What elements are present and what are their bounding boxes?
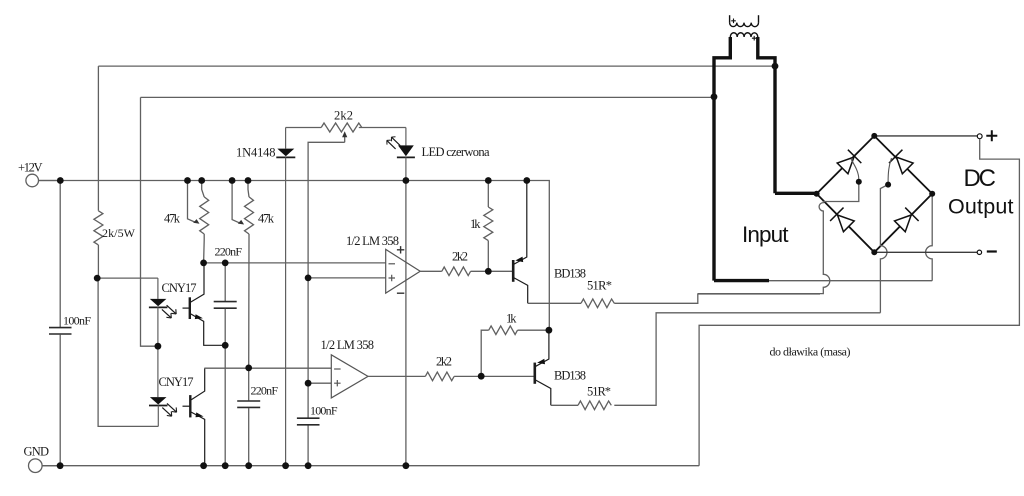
svg-text:1N4148: 1N4148: [236, 146, 276, 160]
junction 47k right body at rail: [245, 177, 252, 184]
op-amp U1A supply plus mark: [397, 246, 404, 253]
svg-text:LED czerwona: LED czerwona: [422, 145, 490, 159]
wire top feed y66 (2k/5W top to input right): [98, 65, 774, 67]
wire opamp2 noninverting input row y383: [308, 382, 331, 384]
capacitor C 220nF upper: [214, 263, 237, 466]
junction 1k channel2 right: [546, 327, 553, 334]
junction opamp2 noninverting node: [305, 380, 312, 387]
svg-text:1/2 LM 358: 1/2 LM 358: [346, 234, 399, 248]
svg-text:47k: 47k: [258, 212, 275, 226]
svg-text:2k2: 2k2: [436, 355, 452, 369]
terminal +12V: [26, 174, 60, 187]
junction GND 100nF lower: [305, 462, 312, 469]
wire opamp1 inverting input row y263: [204, 262, 386, 264]
plus sign: [986, 130, 997, 141]
svg-text:DC: DC: [964, 165, 997, 192]
svg-text:220nF: 220nF: [251, 384, 279, 398]
resistor R 47k left body: [200, 181, 209, 263]
svg-text:GND: GND: [24, 445, 50, 459]
junction opamp2 inverting node: [245, 365, 252, 372]
wire inner-left tap to 51R1 (line B): [698, 182, 859, 294]
wire +12V rail: [39, 181, 550, 331]
svg-text:51R*: 51R*: [587, 385, 611, 399]
junction Q1 emitter at rail: [523, 177, 530, 184]
bridge inner tap left curve: [851, 159, 859, 180]
svg-text:51R*: 51R*: [587, 279, 612, 293]
optocoupler U3 CNY17 (lower) LED: [149, 346, 177, 426]
bridge inner tap right curve: [888, 158, 891, 182]
svg-text:2k/5W: 2k/5W: [102, 226, 136, 240]
capacitor C 100nF lower: [297, 418, 320, 425]
junction GND phototransistor2 emitter: [200, 462, 207, 469]
wire DC plus return (to GND rail): [699, 139, 1019, 466]
terminal DC minus: [977, 250, 981, 254]
svg-text:+12V: +12V: [18, 161, 43, 175]
junction 47k left wiper at rail: [184, 177, 191, 184]
wire opamp1 noninverting input row y278: [308, 277, 386, 279]
transformer polarity plus top: [731, 19, 736, 24]
node bridge top vertex: [871, 133, 877, 139]
junction input bus left tap: [711, 93, 718, 100]
node bridge left vertex: [814, 191, 820, 197]
resistor R 47k right body: [245, 181, 254, 368]
minus sign: [987, 250, 997, 252]
svg-text:100nF: 100nF: [310, 404, 338, 418]
svg-text:do dławika (masa): do dławika (masa): [770, 345, 851, 359]
junction GND 1N4148 branch: [282, 462, 289, 469]
trimmer R 47k left : wiper: [188, 181, 200, 224]
trimmer R 47k right : wiper: [232, 181, 244, 225]
op-amp U1B 1/2 LM 358 (lower): [331, 355, 368, 398]
wire second feed y97 (LED junction to input left): [141, 96, 715, 98]
wire LED anode row y278: [97, 277, 158, 279]
junction Q1 base node: [485, 268, 492, 275]
resistor R 1k channel1: [484, 181, 493, 272]
terminal DC plus: [977, 134, 982, 139]
svg-text:47k: 47k: [164, 212, 181, 226]
bridge diode upper-right: [889, 150, 914, 175]
svg-text:100nF: 100nF: [63, 314, 91, 328]
transistor Q1 BD138 (upper): [513, 181, 528, 304]
node bridge inner tap left: [856, 179, 862, 185]
LED D2 czerwona: [387, 128, 415, 181]
wire opamp2 output: [368, 375, 425, 377]
junction opamp1 inverting node: [200, 260, 207, 267]
wire inner-right tap down (line C riser): [880, 185, 888, 313]
junction opamp1 noninverting node: [305, 275, 312, 282]
wire LED tap vertical x140: [141, 97, 158, 346]
node bridge inner tap right: [885, 182, 891, 188]
svg-text:1k: 1k: [506, 312, 517, 326]
capacitor C 220nF lower: [237, 368, 260, 466]
junction 47k left body at rail: [198, 177, 205, 184]
diode D1 1N4148 with rail: [276, 128, 295, 466]
junction GND 220nF lower: [245, 462, 252, 469]
transformer T1: [730, 15, 759, 37]
svg-text:Output: Output: [948, 195, 1014, 219]
wire bridge plus output: [874, 135, 977, 137]
svg-text:BD138: BD138: [554, 267, 586, 281]
junction GND rail / 100nF input: [57, 462, 64, 469]
bridge diode lower-right: [893, 208, 918, 233]
junction CNY17 LED series node: [155, 343, 162, 350]
junction 47k right wiper at rail: [229, 177, 236, 184]
resistor R 51R* channel1: [528, 294, 820, 308]
junction GND 220nF upper: [222, 462, 229, 469]
wire LED2 return loop: [98, 278, 158, 426]
svg-text:CNY17: CNY17: [159, 375, 194, 389]
svg-text:1/2 LM 358: 1/2 LM 358: [321, 338, 375, 352]
thick bus input right: [758, 37, 817, 193]
svg-text:BD138: BD138: [554, 369, 586, 383]
svg-text:1k: 1k: [470, 217, 481, 231]
node bridge right vertex: [929, 191, 935, 197]
junction Q2 base node: [478, 373, 485, 380]
svg-text:Input: Input: [742, 222, 789, 247]
junction 220nF upper top: [222, 260, 229, 267]
wire opamp1 output: [420, 270, 442, 272]
bridge diode lower-left: [830, 208, 855, 233]
resistor R 1k channel2: [481, 326, 549, 376]
capacitor C 100nF input: [49, 181, 72, 466]
transistor Q2 BD138 (lower): [535, 330, 551, 405]
bridge rectifier diamond: [817, 136, 933, 252]
junction +12V rail / 100nF input: [57, 177, 64, 184]
op-amp U1A supply minus mark: [397, 292, 404, 294]
optocoupler U3 phototransistor: [183, 368, 205, 466]
resistor R 2k2 channel2: [425, 372, 535, 381]
resistor R 2k2 trimmer top: [286, 123, 406, 132]
bridge diode upper-left: [836, 150, 861, 175]
wire bridge minus output: [874, 251, 977, 253]
trimmer 2k2 wiper arrow: [308, 131, 347, 465]
junction 1k channel1 at rail: [485, 177, 492, 184]
svg-text:2k2: 2k2: [334, 109, 353, 123]
svg-text:2k2: 2k2: [452, 250, 468, 264]
wire line A to bridge right vertex: [769, 194, 932, 281]
transformer polarity plus bottom: [752, 36, 757, 41]
svg-text:CNY17: CNY17: [162, 281, 197, 295]
resistor 2k/5W: [94, 66, 103, 278]
wire opamp2 inverting input row y368: [204, 367, 331, 369]
junction LED czerwona at rail: [403, 177, 410, 184]
resistor R 2k2 channel1: [442, 267, 513, 276]
thick bus input left: [714, 37, 769, 281]
optocoupler U2 CNY17 (upper) LED: [149, 278, 176, 346]
wire GND rail: [43, 465, 700, 467]
op-amp U1A 1/2 LM 358 (upper): [386, 249, 421, 293]
node bridge bottom vertex: [871, 249, 877, 255]
svg-text:220nF: 220nF: [215, 245, 243, 259]
optocoupler U2 phototransistor: [183, 263, 226, 345]
terminal GND: [29, 459, 61, 473]
resistor R 51R* channel2: [551, 313, 881, 410]
wire opamp supply vertical x406: [405, 181, 407, 466]
junction phototransistor1 emitter: [222, 342, 229, 349]
junction input bus right tap: [772, 63, 779, 70]
junction 2k/5W bottom node: [94, 275, 101, 282]
junction GND opamp supply branch: [403, 462, 410, 469]
